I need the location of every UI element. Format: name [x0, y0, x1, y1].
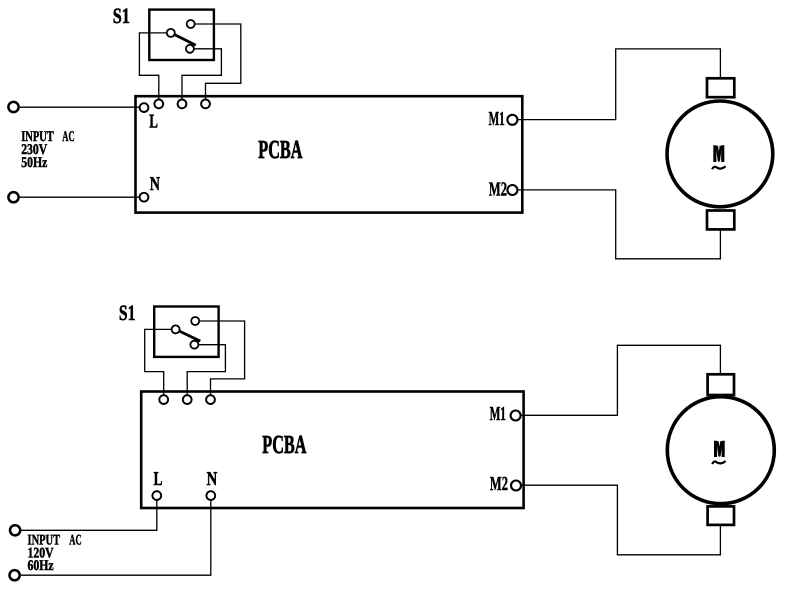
wire: S1 lower contact to PCBA terminal T2 (top)	[182, 49, 221, 100]
switch S1 lower contact circle (bottom)	[190, 341, 198, 349]
svg-text:S1: S1	[113, 4, 130, 28]
PCBA terminal L circle (top)	[140, 103, 149, 112]
switch S1 lever (top)	[175, 35, 196, 46]
svg-text:PCBA: PCBA	[258, 135, 302, 164]
svg-text:60Hz: 60Hz	[28, 558, 54, 574]
svg-text:M1: M1	[490, 403, 506, 425]
motor label M (bottom)	[714, 441, 725, 457]
PCBA terminal T2 circle (top)	[178, 100, 187, 109]
PCBA terminal T3 circle (bottom)	[206, 395, 215, 404]
svg-text:M2: M2	[490, 473, 508, 495]
PCBA box (top)	[136, 96, 523, 212]
switch S1 lever (bottom)	[179, 331, 200, 341]
switch S1 upper contact circle (bottom)	[191, 317, 199, 325]
input terminal circle upper (top)	[8, 102, 18, 112]
motor tilde (bottom)	[712, 461, 726, 464]
svg-text:L: L	[154, 469, 163, 490]
motor top brush rect (top)	[707, 78, 734, 97]
wire: S1 common to PCBA terminal T1 (top)	[139, 33, 166, 100]
PCBA terminal M1 circle (top)	[507, 115, 517, 125]
wire: input lower to N (bottom)	[21, 500, 211, 575]
switch S1 lower contact circle (top)	[186, 45, 194, 53]
switch S1 upper contact circle (top)	[187, 20, 195, 28]
PCBA terminal T2 circle (bottom)	[183, 395, 192, 404]
svg-text:PCBA: PCBA	[262, 430, 306, 459]
wire: S1 lower contact to PCBA terminal T2 (bottom)	[187, 345, 225, 396]
svg-text:L: L	[149, 112, 158, 133]
motor label M (top)	[713, 145, 724, 162]
wire: input upper to L (top)	[20, 106, 140, 108]
PCBA terminal T1 circle (top)	[154, 100, 163, 109]
PCBA terminal M2 circle (top)	[507, 185, 517, 195]
svg-text:N: N	[207, 469, 218, 490]
switch S1 box (top)	[149, 10, 214, 60]
input terminal circle upper (bottom)	[10, 525, 20, 535]
wire: input upper to L (bottom)	[21, 500, 157, 530]
svg-text:AC: AC	[69, 532, 81, 548]
motor circle (bottom)	[667, 397, 774, 504]
motor tilde (top)	[712, 166, 726, 169]
wire: M2 to motor bottom brush (bottom)	[521, 485, 721, 555]
motor bottom brush rect (bottom)	[708, 506, 734, 525]
svg-text:M1: M1	[489, 108, 505, 130]
PCBA terminal T3 circle (top)	[201, 100, 210, 109]
svg-text:50Hz: 50Hz	[21, 155, 47, 171]
PCBA terminal N circle (top)	[140, 193, 149, 202]
wire: M2 to motor bottom brush (top)	[517, 190, 720, 259]
input terminal circle lower (top)	[8, 192, 18, 202]
switch S1 common contact circle (bottom)	[172, 325, 180, 333]
PCBA terminal T1 circle (bottom)	[159, 395, 168, 404]
svg-text:M2: M2	[489, 178, 507, 200]
PCBA terminal L circle (bottom)	[152, 491, 161, 500]
PCBA terminal M2 circle (bottom)	[511, 481, 521, 491]
PCBA terminal N circle (bottom)	[206, 491, 215, 500]
wire: M1 to motor top brush (top)	[517, 49, 720, 120]
switch S1 common contact circle (top)	[167, 29, 175, 37]
motor circle (top)	[667, 101, 773, 207]
motor bottom brush rect (top)	[707, 211, 734, 230]
wire: M1 to motor top brush (bottom)	[520, 345, 720, 415]
input terminal circle lower (bottom)	[10, 570, 20, 580]
svg-text:S1: S1	[119, 301, 135, 325]
switch S1 box (bottom)	[154, 307, 218, 357]
PCBA box (bottom)	[141, 392, 523, 509]
wire: S1 common to PCBA terminal T1 (bottom)	[145, 329, 172, 395]
wire: S1 upper contact to PCBA terminal T3 (bottom)	[199, 321, 244, 395]
svg-text:N: N	[150, 174, 160, 195]
wire: S1 upper contact to PCBA terminal T3 (top)	[195, 24, 241, 100]
svg-text:AC: AC	[62, 129, 74, 145]
wire: input lower to N (top)	[20, 196, 140, 198]
PCBA terminal M1 circle (bottom)	[511, 411, 521, 421]
motor top brush rect (bottom)	[708, 374, 734, 395]
